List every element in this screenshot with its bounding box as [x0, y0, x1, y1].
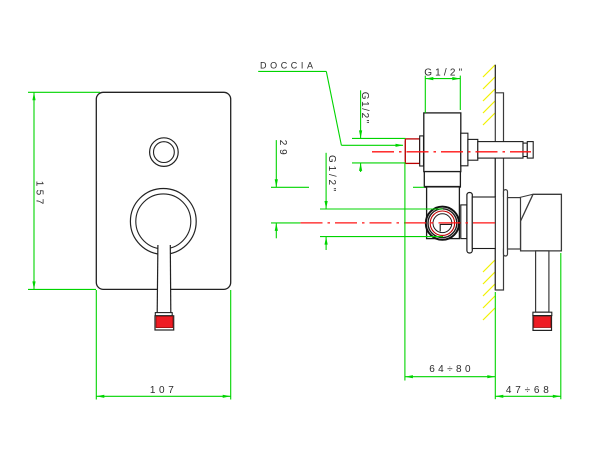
lower valve: cartridge red thread circle [430, 211, 454, 235]
dim 107: left arrow [96, 395, 104, 398]
hub top slant line [519, 194, 533, 197]
lower valve: neck to flange [461, 205, 467, 239]
lower valve: flange disc [467, 193, 472, 254]
front plate (escutcheon) [96, 92, 230, 289]
dim G1/2 #1: upper line segment [360, 90, 362, 138]
dim 64÷80: left arrow [405, 375, 413, 378]
dim 157: top extension line [28, 91, 100, 93]
wall hatch lower patch [483, 260, 495, 320]
dim 64÷80: dimension line [405, 376, 495, 378]
DOCCIA underline [258, 70, 326, 72]
svg-text:64÷80: 64÷80 [429, 364, 474, 375]
upper valve: right stub [468, 139, 478, 160]
dim 29: upper line segment [275, 140, 277, 187]
dim G1/2 #2 (inlet): upper tick [320, 208, 443, 210]
dim G1/2 #2: down arrow [325, 201, 328, 209]
upper valve: pipe neck groove [523, 143, 527, 156]
dim 29: tick near valve [413, 186, 424, 188]
lower valve: cartridge outer ring [426, 207, 459, 240]
mixer ring inner circle [136, 194, 191, 249]
dim 157: bottom extension line [28, 288, 96, 290]
dim G1/2 #2: up arrow [325, 237, 328, 245]
svg-text:G1/2": G1/2" [424, 67, 465, 78]
side plate (escutcheon section) [495, 93, 503, 290]
handle red tip (side) [534, 317, 551, 328]
lever collar (front) [155, 313, 172, 316]
dim 64÷80: right arrow [487, 375, 495, 378]
dim 107: left extension line [95, 290, 97, 400]
dim G1/2 #2: lower tick [320, 236, 443, 238]
lower valve: sleeve through wall [472, 197, 495, 249]
dim G1/2 top: left arrow [425, 77, 433, 80]
upper valve: skirt heavy bottom edge [424, 186, 460, 188]
dim G1/2 #2: lower line segment [325, 237, 327, 250]
lever red tip (front) [156, 316, 173, 327]
dim 29: lower tick [271, 222, 300, 224]
svg-text:29: 29 [277, 140, 288, 159]
handle lever collar (side) [533, 312, 552, 315]
dim G1/2 #1: lower tick [352, 162, 406, 164]
wall hatch upper patch [483, 65, 495, 125]
DOCCIA leader diagonal [326, 71, 341, 145]
lever shaft (front) [157, 243, 171, 313]
handle body [521, 194, 562, 251]
handle lever shaft (side) [536, 251, 549, 312]
dim G1/2 #2: upper line segment [325, 153, 327, 209]
dim 64÷80: right extension (wall surface) [494, 292, 496, 399]
svg-text:G1/2": G1/2" [326, 155, 337, 194]
gasket ring between plate and hub [504, 190, 508, 256]
dim 107: right arrow [223, 395, 231, 398]
dim G1/2 #1: lower line segment [360, 163, 362, 172]
dim 157: bottom arrow [32, 281, 35, 289]
svg-text:157: 157 [34, 181, 45, 208]
svg-text:47÷68: 47÷68 [506, 385, 553, 396]
handle hub [508, 198, 521, 249]
upper valve: nut [420, 136, 424, 166]
lower valve: cartridge inner circle [433, 214, 452, 233]
lower valve: body [427, 187, 460, 239]
handle tip housing (side) [533, 316, 552, 331]
dim G1/2 top: left extension [424, 76, 426, 113]
svg-text:107: 107 [150, 385, 178, 396]
dim G1/2 top: right arrow [452, 77, 460, 80]
dim G1/2 top: dimension line [425, 78, 460, 80]
dim G1/2 #1 (shower outlet): upper tick [352, 137, 406, 139]
dim G1/2 top: right extension [459, 76, 461, 110]
svg-text:DOCCIA: DOCCIA [260, 60, 317, 70]
upper red centerline [372, 151, 531, 153]
dim 29: lower line segment [275, 223, 277, 238]
diverter knob inner circle [154, 142, 175, 163]
wall surface line [494, 65, 496, 93]
upper valve: inlet fitting red outline [405, 139, 419, 164]
upper valve: skirt [424, 172, 460, 187]
dim 47÷68: right extension [560, 253, 562, 399]
mixer ring outer circle [130, 189, 196, 255]
dim G1/2 #1: down arrow [359, 130, 362, 138]
dim 107: dimension line [96, 395, 230, 397]
upper valve: body [424, 113, 461, 172]
lever tip housing (front) [155, 316, 174, 330]
lower valve: cartridge ring 2 [428, 209, 457, 238]
lower red centerline [301, 222, 498, 224]
dim 107: right extension line [230, 290, 232, 400]
svg-text:G1/2": G1/2" [359, 92, 370, 125]
diverter knob outer circle [150, 138, 179, 167]
dim 157: top arrow [32, 92, 35, 100]
dim 29: upper tick [271, 186, 309, 188]
dim 47÷68: dimension line [495, 395, 561, 397]
DOCCIA leader arrow [396, 144, 404, 147]
lower valve: cartridge keyway notch [440, 224, 451, 231]
dim 47÷68: left arrow [495, 395, 503, 398]
upper valve: right collar [461, 133, 468, 166]
dim 47÷68: right arrow [553, 395, 561, 398]
dim G1/2 #1: up arrow [359, 163, 362, 171]
upper valve: pipe end cap [527, 142, 533, 159]
dim 157: dimension line [33, 92, 35, 289]
upper valve: inlet pipe stub (black) [405, 142, 423, 161]
upper valve: outlet pipe through wall [478, 142, 523, 159]
dim 64÷80: left extension [404, 163, 406, 380]
dim 29: down arrow [275, 179, 278, 187]
DOCCIA leader horizontal [341, 144, 403, 146]
dim 29: up arrow [275, 223, 278, 231]
